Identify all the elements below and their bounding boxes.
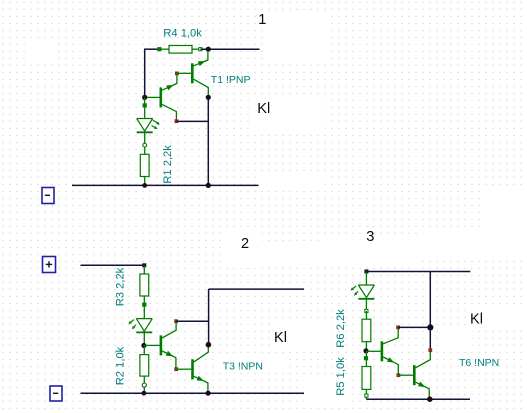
resistor R4	[158, 48, 161, 51]
terminal - (minus, circuit 1)	[42, 188, 54, 204]
pin: driver collector end	[175, 120, 178, 123]
white patch (right of bottom rail 1)	[261, 176, 325, 191]
resistor R6	[365, 311, 367, 319]
resistor R5	[365, 351, 367, 367]
transistor Q driver (left, circuit 2)	[160, 335, 163, 355]
svg-text:R6 2,2k: R6 2,2k	[335, 309, 347, 348]
white patch (right edge)	[483, 186, 527, 233]
junction R2 / bottom rail	[142, 391, 147, 396]
white patch (band right of label 2)	[262, 243, 420, 262]
white patch (around Kl of circuit 3)	[468, 306, 527, 330]
wire driver collector to rail (circuit 2)	[176, 320, 209, 322]
pin: driver emitter / T3 base	[175, 368, 178, 371]
svg-text:R3 2,2k: R3 2,2k	[114, 267, 126, 306]
transistor T6 !NPN	[413, 365, 416, 385]
terminal - (minus, circuit 2)	[50, 386, 62, 401]
junction R6/R5/base node	[363, 348, 368, 353]
junction LED/R2/base node	[141, 343, 146, 348]
pin: driver collector end (circuit 3)	[397, 326, 400, 329]
wire vertical rail circuit 3	[429, 272, 431, 351]
svg-text:Kl: Kl	[470, 312, 483, 328]
LED D3 cathode lead	[365, 299, 367, 311]
wire driver collector to rail (circuit 3)	[398, 326, 430, 328]
LED D2 anode lead	[143, 305, 145, 319]
svg-text:2: 2	[241, 236, 249, 252]
terminal + (plus, circuit 2)	[43, 257, 56, 273]
svg-text:R5 1,0k: R5 1,0k	[335, 357, 347, 396]
pin: driver collector end (circuit 2)	[175, 320, 178, 323]
svg-text:Kl: Kl	[274, 330, 287, 346]
white patch (around label 2)	[224, 233, 262, 268]
junction T3 collector / rail	[206, 342, 212, 348]
junction T6 emitter / bottom rail	[427, 396, 433, 402]
LED D2 cathode lead	[143, 332, 145, 345]
LED D3	[358, 284, 374, 286]
bottom rail circuit 3	[366, 398, 470, 400]
wire from R4 to top rail	[200, 48, 259, 50]
svg-text:3: 3	[366, 229, 374, 245]
junction rail / vertical	[206, 183, 211, 188]
LED D3 anode lead	[365, 272, 367, 286]
LED D1	[137, 118, 153, 120]
wire vertical rail circuit 1	[207, 97, 209, 185]
white patch (below label 3)	[322, 240, 420, 263]
LED D1 cathode lead	[144, 132, 146, 154]
white patch (left of T6 label)	[440, 330, 472, 349]
pin corner rail/LED (circuit 3)	[365, 270, 368, 273]
transistor Q2 driver (lower left)	[160, 87, 163, 107]
white patch (bottom right of rail 2)	[304, 378, 348, 404]
white patch (right band)	[420, 233, 527, 255]
pin: wire end to T6 collector	[429, 349, 432, 352]
junction top rail / T1 emitter	[206, 47, 211, 52]
white patch (around Kl of circuit 2)	[272, 322, 332, 350]
resistor R2	[143, 346, 145, 355]
junction LED anode / base node	[142, 95, 147, 100]
white patch (erased area top-left)	[29, 38, 55, 64]
resistor R3	[143, 265, 145, 274]
white patch (around T3 label)	[215, 357, 285, 373]
svg-text:T1 !PNP: T1 !PNP	[211, 74, 251, 86]
LED D2	[136, 318, 152, 320]
white patch (right of label 1)	[264, 14, 327, 62]
svg-text:T3 !NPN: T3 !NPN	[223, 361, 263, 373]
transistor T3 !NPN	[191, 359, 194, 379]
top rail circuit 2	[81, 264, 145, 266]
resistor R1	[140, 154, 149, 176]
svg-text:T6 !NPN: T6 !NPN	[459, 357, 499, 369]
bottom rail circuit 1	[72, 184, 259, 186]
junction T3 emitter / bottom rail	[206, 391, 211, 396]
wire top-left of circuit 1	[145, 48, 160, 50]
junction R1 / bottom rail	[142, 183, 147, 188]
svg-text:1: 1	[258, 12, 266, 28]
svg-text:R4 1,0k: R4 1,0k	[163, 28, 202, 40]
svg-text:Kl: Kl	[257, 101, 270, 117]
bottom rail circuit 2	[81, 392, 305, 394]
wire vertical rail circuit 2	[208, 289, 210, 345]
white patch (around Kl of circuit 1)	[254, 96, 325, 133]
svg-text:R1 2,2k: R1 2,2k	[162, 145, 174, 184]
pin node LED/R1	[143, 143, 147, 147]
wire vertical left of circuit 1	[144, 49, 146, 98]
pin corner rail/R3	[143, 264, 146, 267]
wire driver collector to rail	[176, 120, 208, 122]
junction T1 collector / rail	[206, 95, 211, 100]
junction collector wire / vertical rail	[427, 324, 433, 330]
transistor T1 !PNP	[191, 63, 194, 83]
LED D1 anode lead	[144, 97, 146, 118]
pin LED/R6	[365, 309, 368, 312]
pin: driver emitter / T6 base	[397, 374, 400, 377]
top right rail circuit 2	[209, 288, 304, 290]
transistor Q driver (left, circuit 3)	[381, 341, 384, 361]
pin: driver emitter to T1 base	[176, 72, 179, 75]
top rail circuit 3	[366, 271, 470, 273]
pin node R2 bottom	[142, 383, 146, 387]
svg-text:R2 1,0k: R2 1,0k	[114, 346, 126, 385]
